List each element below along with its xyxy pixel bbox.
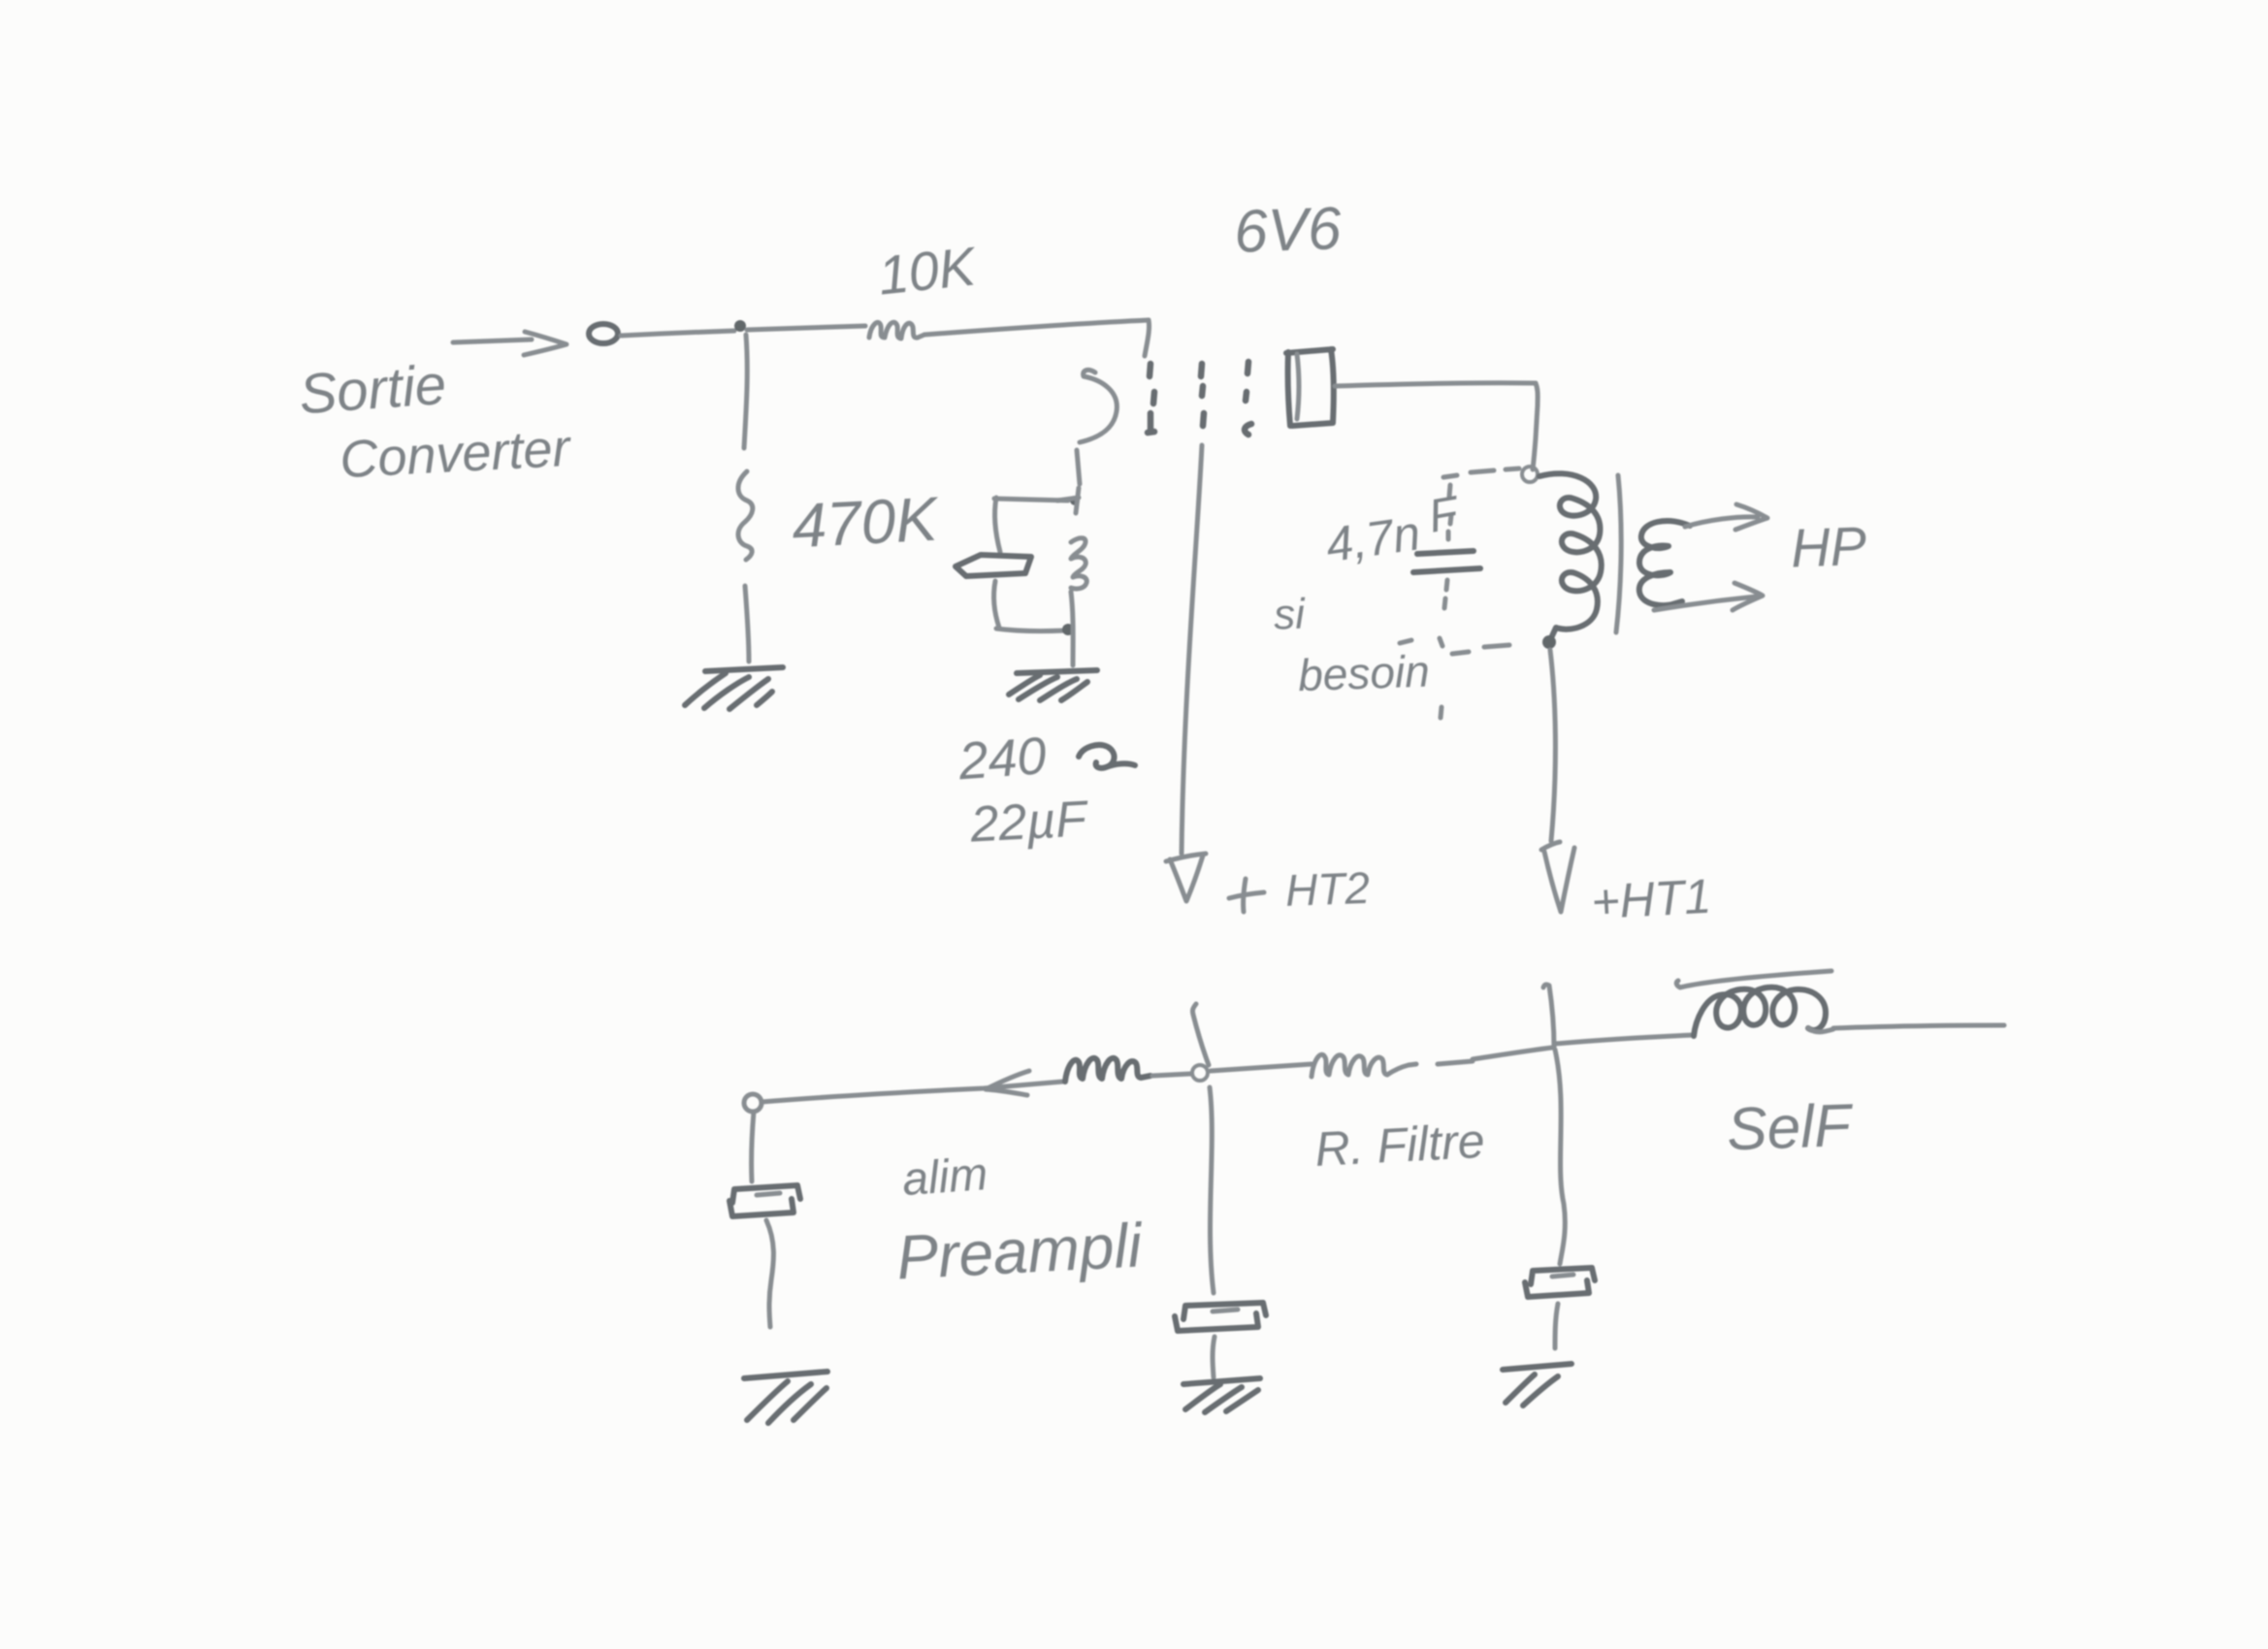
svg-text:SelF: SelF: [1726, 1092, 1855, 1164]
svg-text:HP: HP: [1790, 515, 1867, 579]
svg-text:HT2: HT2: [1284, 862, 1371, 916]
svg-text:R. Filtre: R. Filtre: [1313, 1114, 1486, 1177]
svg-text:470K: 470K: [791, 483, 942, 561]
svg-text:alim: alim: [900, 1148, 988, 1206]
svg-text:6V6: 6V6: [1233, 195, 1343, 266]
svg-text:Converter: Converter: [339, 419, 573, 489]
svg-text:Sortie: Sortie: [297, 353, 448, 426]
svg-text:Preampli: Preampli: [895, 1210, 1146, 1292]
svg-text:10K: 10K: [875, 235, 980, 306]
svg-text:besoin: besoin: [1297, 645, 1430, 700]
svg-text:4,7n: 4,7n: [1322, 505, 1423, 572]
svg-text:22µF: 22µF: [968, 791, 1091, 853]
svg-text:240: 240: [956, 727, 1048, 791]
svg-text:F: F: [1425, 487, 1465, 543]
svg-text:si: si: [1273, 590, 1307, 638]
svg-text:+HT1: +HT1: [1590, 869, 1712, 929]
